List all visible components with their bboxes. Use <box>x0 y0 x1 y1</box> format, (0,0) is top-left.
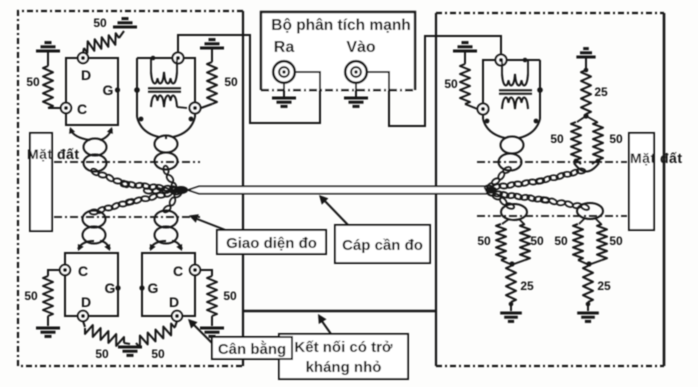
dash-dot line lower left <box>54 216 200 218</box>
cable under test (Cáp cần đo) <box>188 186 487 193</box>
wire T2 right vertical <box>539 60 541 119</box>
svg-text:Kết nối có trở: Kết nối có trở <box>294 339 393 356</box>
svg-text:G: G <box>148 280 159 296</box>
ferrite beads above U2 <box>83 211 106 228</box>
ground above 25 (upper right) <box>576 56 595 59</box>
resistor 50 (right of U3) <box>200 270 212 276</box>
T2 output bell <box>483 119 505 138</box>
ground below Vào <box>355 83 357 97</box>
wire Ra to left balun <box>178 35 320 123</box>
terminal T1 top <box>173 53 184 64</box>
svg-text:D: D <box>169 294 179 310</box>
low impedance connection line between enclosures <box>243 310 436 313</box>
svg-text:50: 50 <box>444 77 458 91</box>
center ground below 50/50 <box>118 346 142 349</box>
svg-text:50: 50 <box>24 289 38 303</box>
T1 secondary winding <box>151 96 177 107</box>
callout Giao diện đo <box>192 217 228 231</box>
resistor 50 (lower-left pair, right) <box>519 219 524 224</box>
svg-text:50: 50 <box>609 132 623 146</box>
resistor 25 (lower-right) <box>583 266 593 302</box>
resistor 50 (left of U1) <box>36 50 60 53</box>
resistor 50 (lower-left pair, left) <box>502 219 509 224</box>
twisted pair from T1 beads to cable <box>163 165 170 174</box>
svg-text:Mặt đất: Mặt đất <box>630 150 683 166</box>
left shielded enclosure box <box>18 11 243 366</box>
svg-text:50: 50 <box>554 234 568 248</box>
svg-text:50: 50 <box>151 347 165 361</box>
terminal D of U1 <box>78 53 88 63</box>
bead above lower-right pair <box>577 203 603 219</box>
ground below 25 (lower-left) <box>500 312 522 315</box>
twisted pair cable to lower-right network <box>486 189 496 197</box>
svg-text:50: 50 <box>26 75 40 89</box>
dash-dot line upper left <box>54 161 200 163</box>
T1 primary winding <box>151 72 177 83</box>
svg-text:Giao diện đo: Giao diện đo <box>226 235 317 252</box>
resistor 50 (upper-right pair right) <box>586 116 597 122</box>
device U1 box (C/D/G device, top-left) <box>66 58 118 125</box>
network analyzer box (Bộ phân tích mạnh) <box>261 12 415 90</box>
svg-text:25: 25 <box>597 279 611 293</box>
right shielded enclosure box <box>436 12 664 14</box>
wire Vào to right balun <box>367 36 501 126</box>
connector Ra <box>273 61 295 83</box>
callout Cáp cần đo <box>322 198 349 226</box>
twisted pair from T2 beads to cable <box>502 166 512 175</box>
svg-text:50: 50 <box>609 234 623 248</box>
svg-text:kháng nhỏ: kháng nhỏ <box>306 359 382 376</box>
resistor 50 (upper-right pair left) <box>577 116 586 122</box>
terminal T2 top <box>496 55 507 66</box>
svg-text:Mặt đất: Mặt đất <box>27 146 80 162</box>
resistor 50 (from D of U3 to center ground) <box>175 321 177 327</box>
ground plane bar (left Mặt đất) <box>30 133 52 231</box>
wire T1 left vertical <box>136 58 138 117</box>
resistor 50 (left of U2) <box>48 270 60 276</box>
resistor 50 (lower-right pair, right) <box>595 218 601 224</box>
connector Vào <box>345 61 367 83</box>
twisted pair from upper-left beads to cable <box>90 167 100 176</box>
terminal T2 bottom left <box>478 104 489 115</box>
ferrite beads below T1 <box>155 136 178 153</box>
ground below 25 (lower-right) <box>577 312 599 315</box>
resistor 50 (right of T1) <box>200 47 224 50</box>
svg-text:50: 50 <box>223 289 237 303</box>
resistor 50 (from D of U2 to center ground) <box>83 321 85 327</box>
svg-text:50: 50 <box>550 132 564 146</box>
terminal C of U2 <box>60 265 70 275</box>
wire T2 top bar <box>507 59 541 61</box>
resistor 50 (top, from D of U1 to ground) <box>83 48 84 53</box>
resistor 50 (lower-right pair, left) <box>579 218 585 224</box>
terminal D of U3 <box>172 311 182 321</box>
svg-text:Cân bằng: Cân bằng <box>218 340 286 358</box>
twisted pair cable to lower-left network <box>485 187 494 197</box>
bead below upper-right pair <box>574 163 599 172</box>
terminal D of U2 <box>78 311 88 321</box>
dash-dot line upper right <box>477 161 627 163</box>
svg-text:G: G <box>103 82 114 98</box>
U1 output bell with arrows <box>70 129 90 140</box>
ground plane bar (right Mặt đất) <box>629 133 654 230</box>
ferrite beads below T2 <box>501 137 524 154</box>
T2 primary winding <box>502 74 528 85</box>
resistor 50 (left of T2) <box>453 50 477 53</box>
twisted pair to lower-left beads <box>172 189 181 194</box>
svg-text:Ra: Ra <box>274 39 295 56</box>
ferrite beads above U3 <box>155 211 178 228</box>
twisted pair cable to upper-right network <box>484 185 493 191</box>
svg-text:50: 50 <box>530 234 544 248</box>
twisted tangle at cable right end <box>485 187 497 194</box>
wire T1 right vertical <box>184 58 196 103</box>
T1 output bell <box>137 117 159 137</box>
T2 core <box>499 89 532 91</box>
dash-dot line lower right <box>477 215 627 217</box>
callout Kết nối có trở kháng nhỏ <box>319 317 331 334</box>
T2 secondary winding <box>502 98 528 109</box>
svg-text:D: D <box>81 67 91 83</box>
svg-text:Cáp cần đo: Cáp cần đo <box>342 237 423 254</box>
bell into U3 with arrows <box>150 241 166 249</box>
svg-text:50: 50 <box>93 16 107 30</box>
terminal C of U1 <box>61 103 71 113</box>
device U2 box (bottom-left) <box>65 253 118 316</box>
svg-text:Vào: Vào <box>346 39 376 56</box>
bead above lower-left pair <box>501 204 527 220</box>
svg-text:C: C <box>78 263 88 279</box>
svg-text:C: C <box>173 263 183 279</box>
resistor 25 (lower-left) <box>506 266 516 302</box>
svg-text:25: 25 <box>594 85 608 99</box>
ground below Ra <box>283 83 285 97</box>
terminal T1 bottom right <box>190 103 201 114</box>
wire T1 top bar <box>137 57 173 59</box>
wire T2 left drop to lower terminal <box>483 60 496 103</box>
svg-text:C: C <box>77 101 87 117</box>
svg-text:25: 25 <box>520 279 534 293</box>
svg-text:Bộ phân tích mạnh: Bộ phân tích mạnh <box>271 17 411 34</box>
terminal C of U3 <box>190 265 200 275</box>
T1 core <box>148 87 181 89</box>
short twisted tail left of junction <box>143 188 152 195</box>
svg-text:50: 50 <box>224 75 238 89</box>
bell into U2 with arrows <box>78 241 94 249</box>
device U3 box (bottom-middle) <box>142 253 195 316</box>
svg-text:G: G <box>105 280 116 296</box>
callout Cân bằng <box>191 322 213 344</box>
twisted pair to lower-middle beads <box>173 189 183 198</box>
resistor 25 (upper right) <box>581 70 591 114</box>
svg-text:D: D <box>81 294 91 310</box>
svg-text:50: 50 <box>95 347 109 361</box>
ferrite beads below U1 <box>84 139 107 156</box>
svg-text:50: 50 <box>477 234 491 248</box>
